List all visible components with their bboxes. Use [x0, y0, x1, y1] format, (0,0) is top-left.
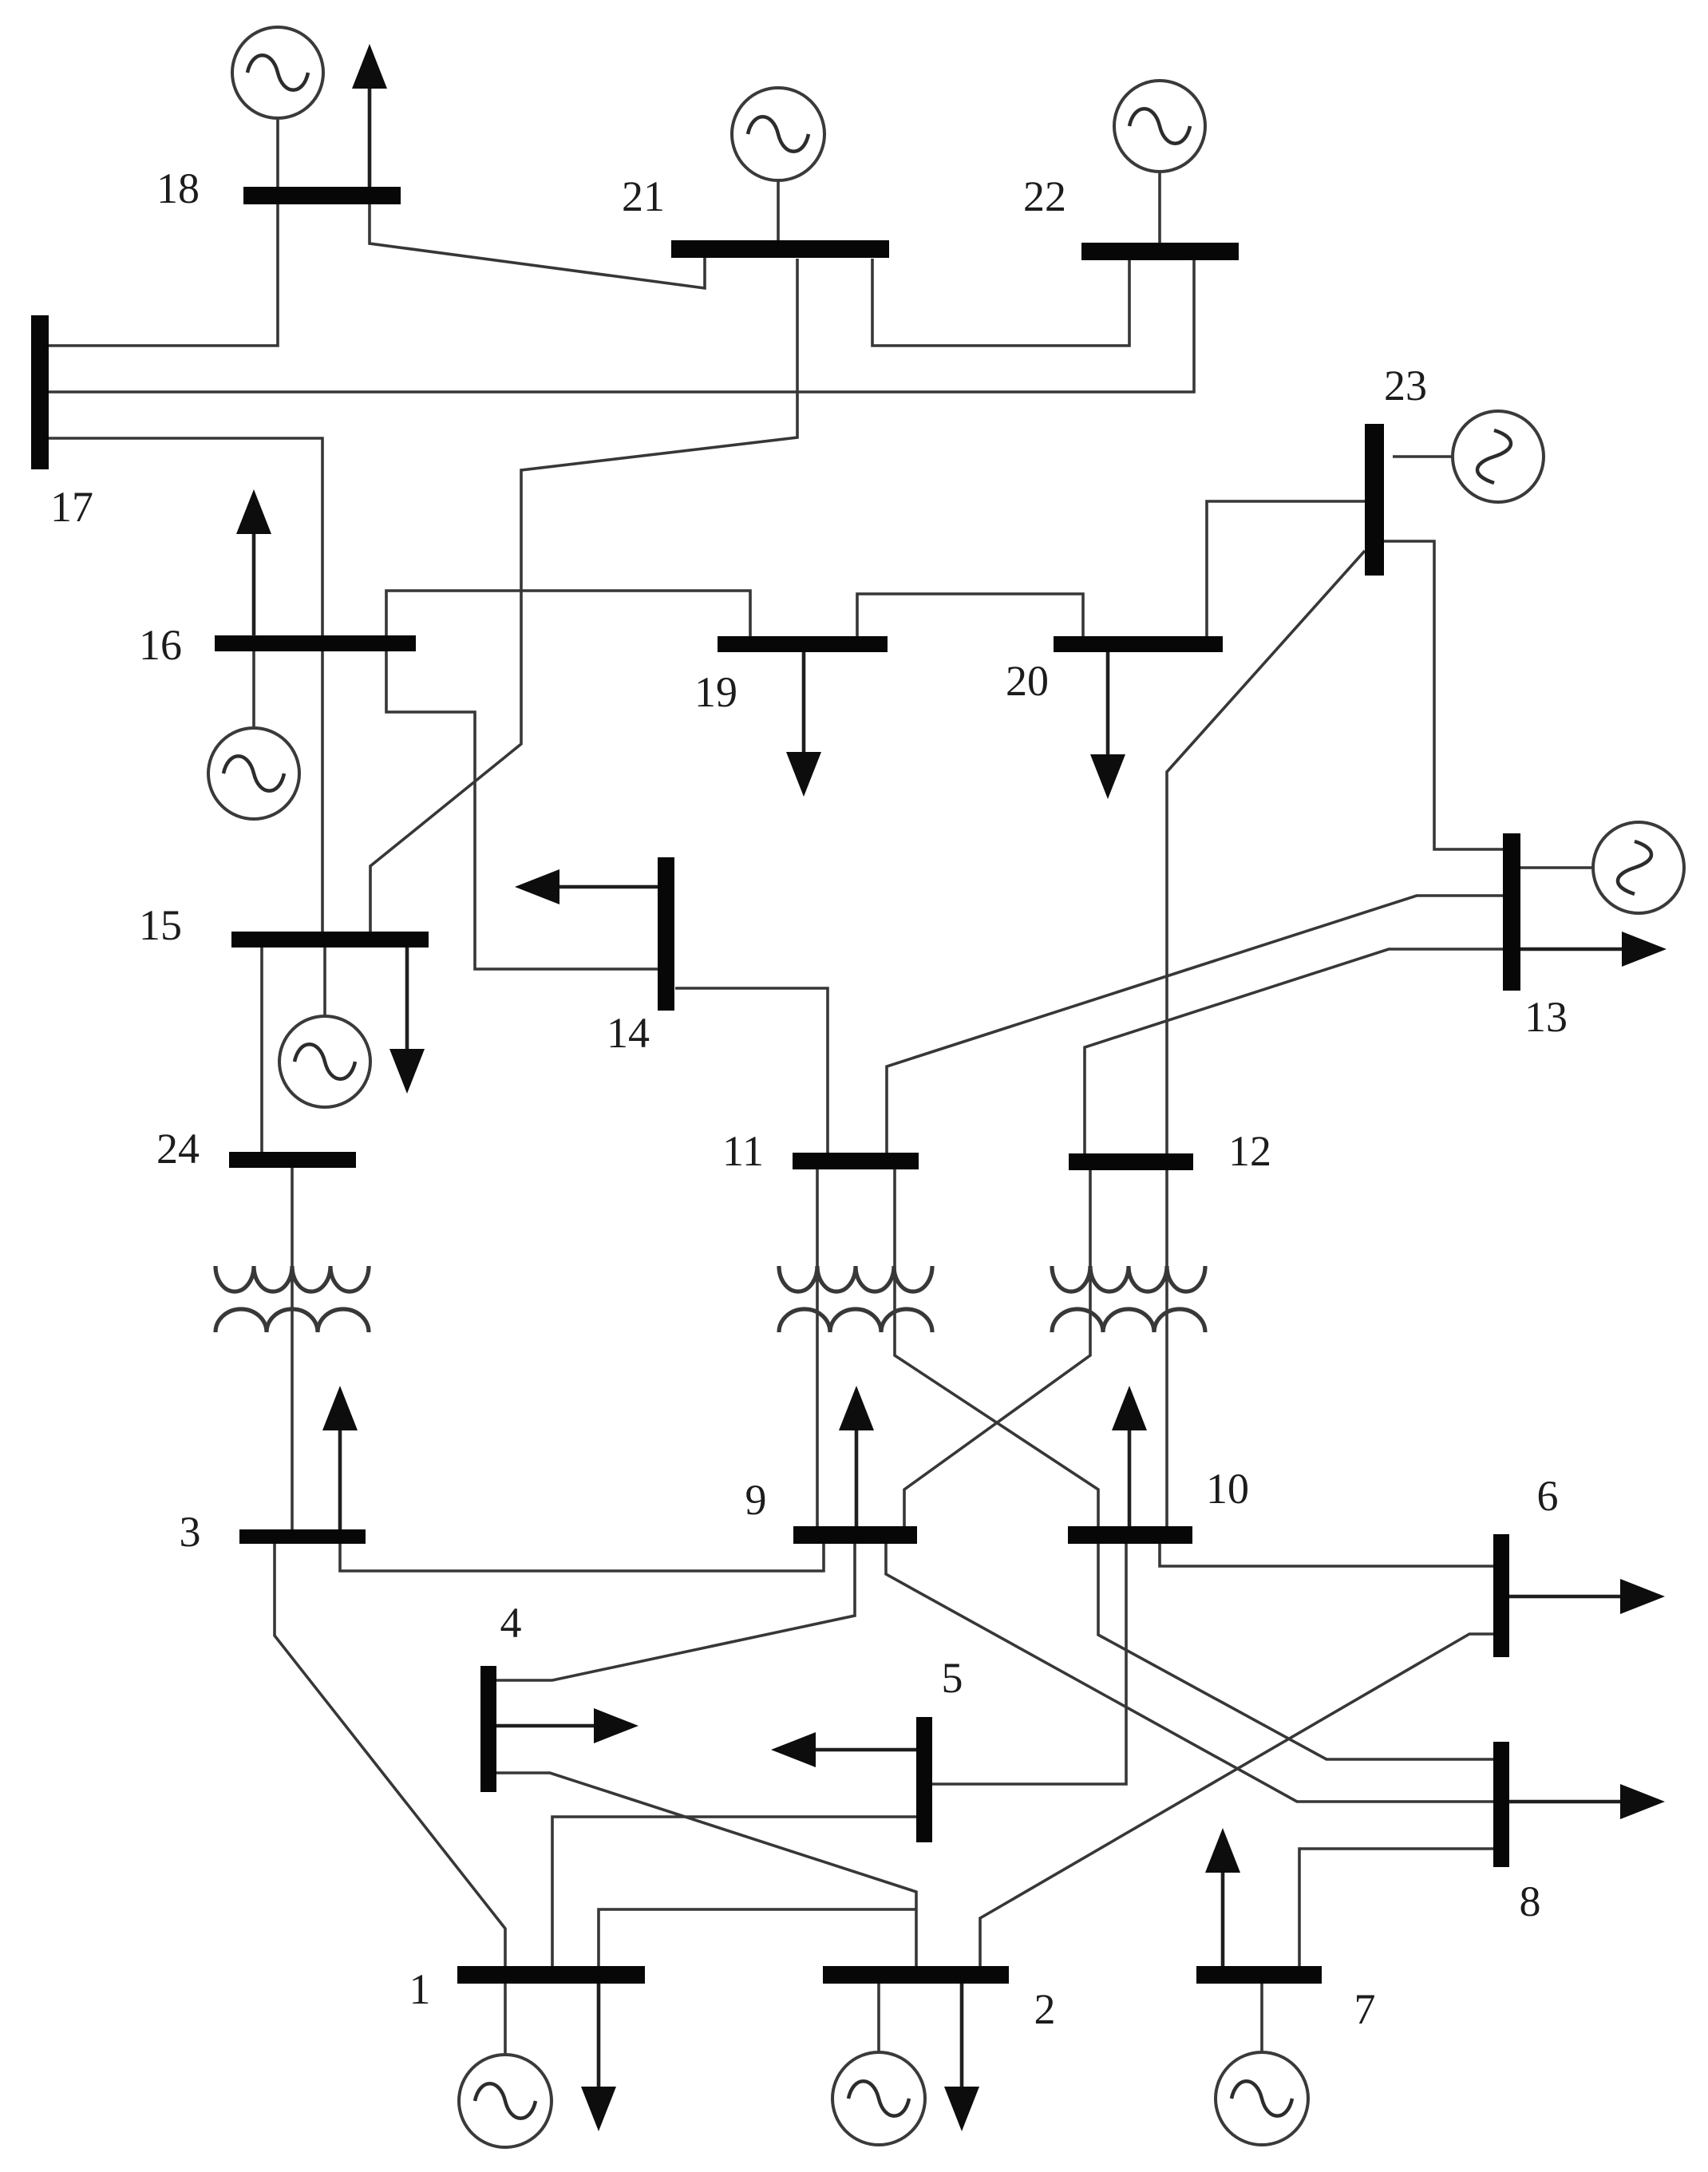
svg-text:18: 18 — [156, 164, 200, 212]
svg-text:3: 3 — [180, 1508, 201, 1556]
svg-text:6: 6 — [1537, 1472, 1559, 1520]
svg-text:14: 14 — [607, 1009, 650, 1057]
svg-text:2: 2 — [1034, 1985, 1056, 2033]
svg-text:12: 12 — [1228, 1127, 1271, 1175]
svg-text:9: 9 — [745, 1476, 767, 1524]
svg-text:21: 21 — [622, 172, 665, 220]
svg-text:15: 15 — [139, 901, 182, 949]
svg-text:7: 7 — [1354, 1985, 1376, 2033]
svg-text:11: 11 — [722, 1127, 764, 1175]
svg-text:20: 20 — [1006, 657, 1049, 705]
svg-text:13: 13 — [1524, 993, 1568, 1041]
svg-text:19: 19 — [694, 668, 737, 716]
svg-text:17: 17 — [50, 483, 93, 531]
svg-text:4: 4 — [500, 1599, 522, 1647]
svg-text:1: 1 — [409, 1965, 431, 2013]
svg-text:23: 23 — [1384, 362, 1427, 409]
svg-text:16: 16 — [139, 621, 182, 669]
svg-text:24: 24 — [156, 1125, 200, 1173]
svg-text:8: 8 — [1520, 1877, 1541, 1925]
svg-text:10: 10 — [1206, 1465, 1249, 1513]
svg-text:5: 5 — [942, 1654, 963, 1702]
svg-text:22: 22 — [1023, 172, 1066, 220]
